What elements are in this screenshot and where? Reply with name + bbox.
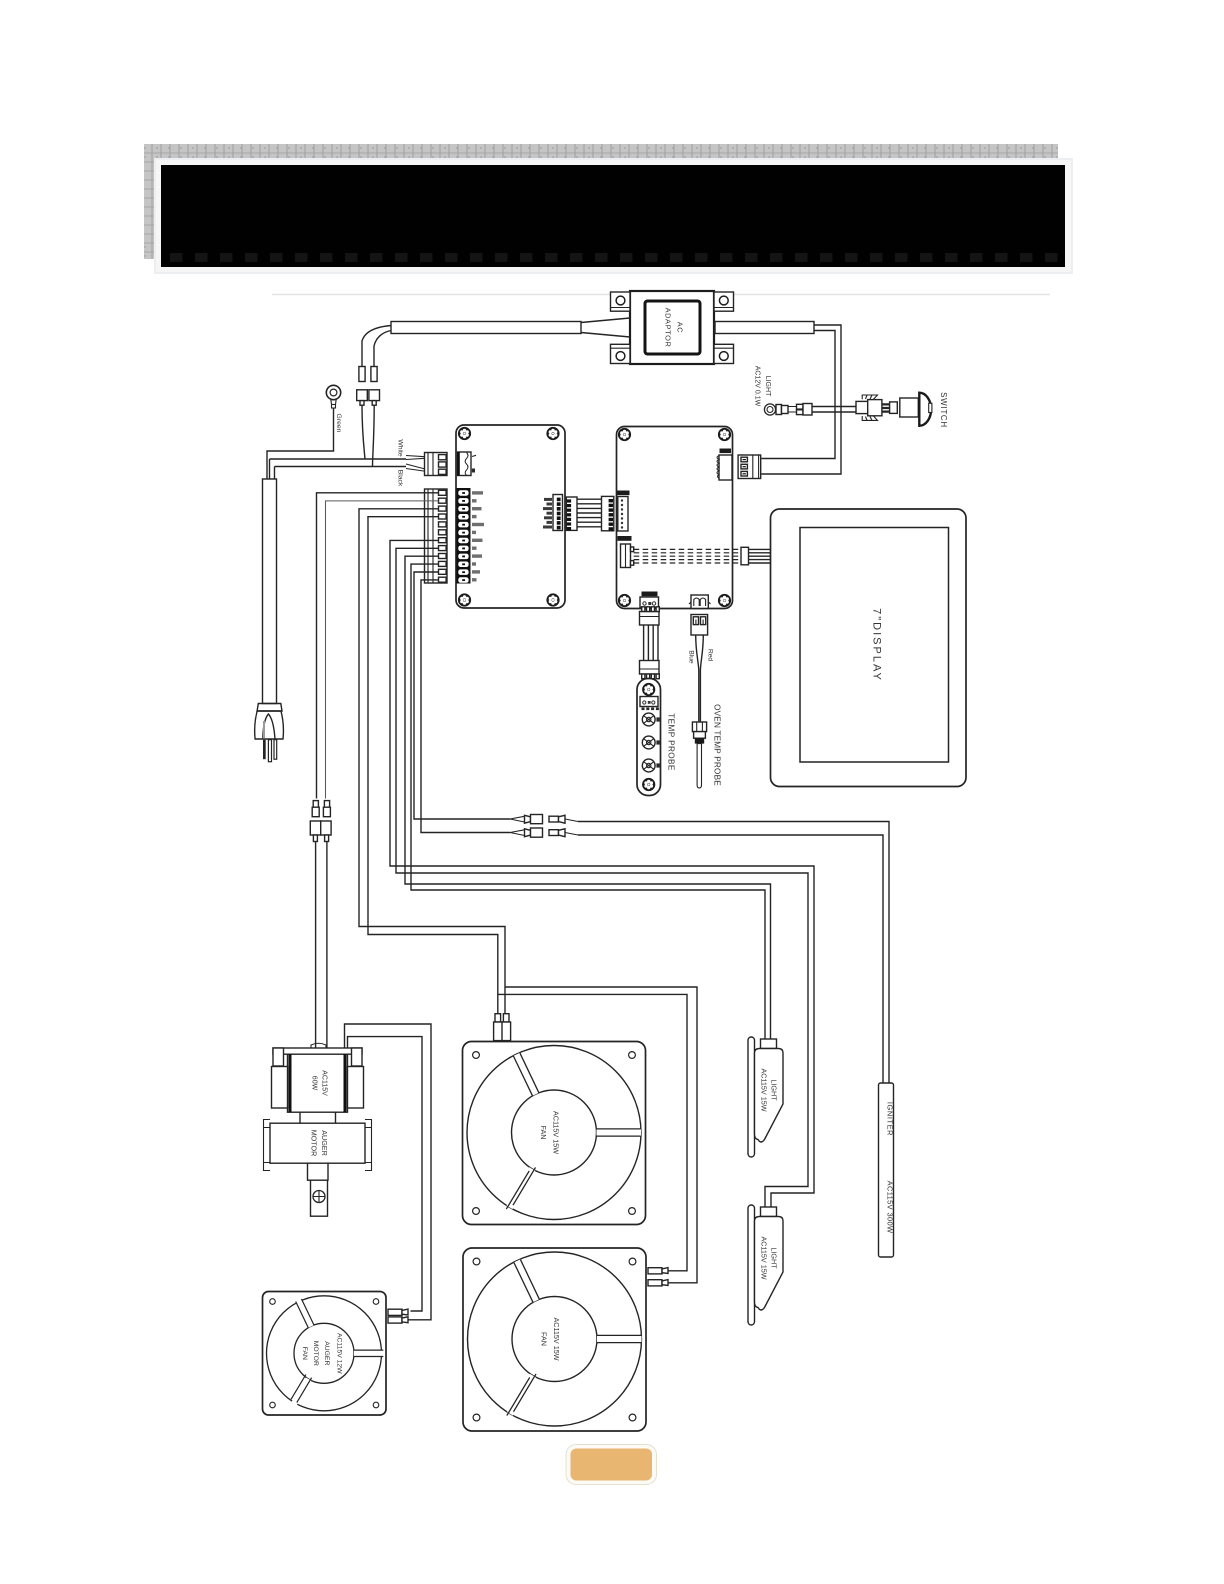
P-MOS comb connector upper — [640, 607, 660, 625]
wire: pin9 to light L1 — [405, 556, 771, 1039]
motor top cap — [311, 1043, 326, 1048]
cable sleeve right — [715, 322, 814, 334]
mating spade A — [357, 390, 368, 401]
7 inch display — [771, 509, 967, 787]
display cable connector — [741, 547, 749, 565]
auger fan F3 — [263, 1292, 387, 1416]
wire: oven probe leads — [696, 635, 699, 722]
auger fan spade row1 — [388, 1309, 408, 1315]
switch tab top — [862, 395, 877, 399]
shaft — [311, 1180, 328, 1216]
probe jack 3 — [642, 759, 655, 772]
AC adaptor body — [611, 291, 734, 364]
fan F1 — [463, 1042, 646, 1225]
power cord jacket — [263, 479, 277, 704]
svg-text:LIGHT: LIGHT — [764, 376, 771, 397]
banner black plate (redacted title) — [161, 165, 1065, 267]
wire: fan2 branch upper — [505, 987, 697, 1283]
wire: pin8 to light L2 — [396, 548, 808, 1207]
svg-text:Red: Red — [707, 649, 714, 661]
wire: light connector to switch — [812, 407, 856, 413]
page number button — [566, 1445, 657, 1485]
wire: pin1 to auger motor — [317, 493, 439, 799]
wire: fan2 branch lower — [498, 994, 687, 1270]
probe comb connector lower — [640, 661, 660, 679]
wire: spade row2 to igniter — [578, 835, 883, 1083]
svg-text:LIGHT: LIGHT — [770, 1247, 779, 1269]
auger motor inline spade A — [310, 801, 320, 1048]
screw board1 TL — [458, 427, 470, 439]
ribbon cable to display (dashed) — [634, 549, 741, 563]
screw board2 BL — [618, 594, 630, 606]
motor side bracket right — [348, 1067, 364, 1109]
wire: probe cable 4-core — [644, 625, 658, 661]
screw board2 TL — [618, 428, 630, 440]
svg-text:IGNITER: IGNITER — [886, 1102, 895, 1136]
wire: pin10 to light L1 — [411, 564, 765, 1039]
gearbox ear left — [264, 1120, 271, 1171]
auger fan blade slots — [294, 1300, 384, 1404]
label LCD — [720, 449, 732, 454]
svg-text:Green: Green — [335, 414, 342, 433]
spade terminal B (adaptor input) — [371, 367, 377, 382]
board2 display connector — [621, 544, 634, 568]
gearbox AUGER MOTOR — [270, 1123, 365, 1163]
switch tab bottom — [862, 416, 877, 420]
mating spade B — [369, 390, 380, 401]
inter-board ribbon left shell — [566, 497, 577, 530]
switch assembly — [856, 393, 932, 426]
wire: pin3 to fan1 — [359, 509, 505, 1014]
PCB board U2 (control board) — [617, 427, 733, 609]
PCB board U1 (power board) — [456, 425, 565, 608]
svg-text:AC115V 15W: AC115V 15W — [760, 1236, 769, 1279]
light L2 body — [755, 1217, 784, 1311]
screw board1 BL — [458, 594, 470, 606]
wire: pin11 to igniter spade — [414, 572, 510, 819]
svg-text:ADAPTOR: ADAPTOR — [664, 308, 673, 348]
wire ribbon between shells — [577, 499, 602, 527]
svg-text:SWITCH: SWITCH — [939, 392, 948, 428]
screw board2 TR — [718, 428, 730, 440]
wire: sleeve to spade drop B — [374, 331, 391, 367]
banner white frame — [155, 159, 1072, 273]
funnel into AC connector pin3 — [406, 464, 439, 472]
svg-text:LIGHT: LIGHT — [770, 1079, 779, 1101]
adaptor inner label frame — [645, 301, 700, 354]
wire: spade B to Black line — [373, 405, 375, 466]
svg-text:AC115V 12W: AC115V 12W — [336, 1333, 343, 1374]
auger fan spade row2 — [388, 1317, 408, 1323]
adaptor ear bottom-left — [611, 344, 631, 363]
funnel into AC connector pin1 — [406, 456, 439, 460]
screw board1 BR — [547, 594, 559, 606]
light L1 mounting bar — [748, 1037, 755, 1157]
svg-text:FAN: FAN — [539, 1126, 548, 1140]
svg-text:Black: Black — [397, 470, 404, 487]
fan1 blade slots — [510, 1054, 642, 1207]
screw board2 BR — [718, 594, 730, 606]
svg-text:7"DISPLAY: 7"DISPLAY — [871, 608, 883, 682]
auger motor inline spade B — [321, 801, 331, 1048]
svg-text:AC115V 300W: AC115V 300W — [886, 1181, 895, 1234]
board2 probe socket — [689, 595, 711, 608]
svg-text:MOTOR: MOTOR — [312, 1341, 319, 1366]
external 12-pin harness connector — [425, 489, 448, 583]
board2 motor connector — [618, 497, 628, 532]
probe jack 1 — [642, 713, 655, 726]
wire: adaptor output rail inner — [762, 331, 836, 459]
board2 P-MOS connector — [640, 597, 659, 608]
svg-text:AUGER: AUGER — [323, 1341, 330, 1365]
light L1 connector — [761, 1039, 777, 1049]
fan F2 — [463, 1248, 646, 1431]
screw probe bottom — [643, 778, 655, 790]
svg-text:AC115V 15W: AC115V 15W — [552, 1317, 561, 1360]
svg-text:AC115V 15W: AC115V 15W — [552, 1111, 561, 1154]
motor top flange — [273, 1048, 362, 1054]
svg-text:MOTOR: MOTOR — [310, 1130, 319, 1157]
wire: pin7 to light L2 — [390, 540, 814, 1207]
fan2 spade row2 — [648, 1280, 668, 1286]
svg-text:AC: AC — [676, 322, 685, 334]
shaft collar — [308, 1163, 329, 1180]
adaptor ear top-right — [714, 292, 734, 311]
external AC 3-pin connector — [425, 453, 448, 476]
svg-text:AC115V: AC115V — [321, 1070, 328, 1096]
light L2 connector — [761, 1207, 777, 1217]
svg-text:FAN: FAN — [301, 1347, 308, 1360]
wire: pin2 to auger motor (light) — [326, 501, 439, 799]
spade terminal A (adaptor input) — [359, 367, 365, 382]
faint rule under banner — [272, 294, 1050, 296]
LCD cable connector — [738, 455, 761, 479]
board1 pin name labels — [472, 491, 484, 581]
fan2 spade row1 — [648, 1268, 668, 1274]
wire: green ground — [267, 408, 334, 479]
auger motor M1 assembly — [264, 1043, 372, 1216]
screw probe top — [643, 683, 655, 695]
adaptor ear top-left — [611, 292, 631, 311]
oven probe fitting — [692, 722, 706, 788]
switch prongs — [882, 404, 890, 411]
svg-text:60W: 60W — [311, 1076, 318, 1091]
fan1 spade E — [502, 1014, 511, 1041]
label P-MOS — [642, 592, 658, 597]
wire: auger fan branch lower — [348, 1037, 423, 1311]
ring terminal Green — [326, 385, 340, 408]
indicator light AC12V — [754, 366, 789, 415]
wire: adaptor output rail outer — [762, 325, 842, 474]
label Motor — [617, 491, 630, 496]
wire: pin12 to igniter spade — [421, 580, 510, 833]
svg-text:FAN: FAN — [540, 1332, 549, 1346]
screw board1 TR — [547, 427, 559, 439]
board2 LCD connector — [717, 455, 732, 480]
svg-text:OVEN TEMP PROBE: OVEN TEMP PROBE — [713, 704, 722, 786]
fan1 rotor ring — [521, 1133, 641, 1220]
inter-board ribbon right shell — [602, 496, 614, 530]
temp probe jack board — [637, 679, 661, 796]
label P-Temp — [618, 536, 632, 541]
switch can — [900, 398, 919, 417]
light L1 body — [755, 1049, 784, 1143]
wire: White line — [270, 459, 407, 479]
gearbox ear right — [365, 1120, 372, 1171]
svg-text:AC115V 15W: AC115V 15W — [760, 1068, 769, 1111]
mains plug — [255, 704, 284, 762]
cable sleeve left — [391, 322, 581, 334]
motor side bracket left — [272, 1067, 288, 1109]
adaptor ear bottom-right — [714, 344, 734, 363]
svg-text:TEMP PROBE: TEMP PROBE — [667, 713, 676, 771]
header grid strip (scrapbook texture behind banner) — [144, 144, 1058, 259]
wire: adaptor left cord into sleeve — [581, 318, 630, 337]
board1 12-pin header column — [457, 488, 471, 584]
fan1 spade D — [494, 1014, 503, 1041]
igniter — [879, 1083, 894, 1257]
board1 inter-board header — [543, 495, 563, 531]
oven probe plug — [691, 615, 708, 636]
wire: spade A to White line — [362, 405, 365, 459]
wire: Black line — [275, 467, 407, 480]
switch bezel dome — [919, 393, 931, 426]
svg-text:AUGER: AUGER — [320, 1130, 329, 1156]
light L2 mounting bar — [748, 1205, 755, 1325]
wire: spade row1 to igniter — [578, 822, 889, 1084]
svg-text:White: White — [397, 439, 404, 457]
light connector pair — [797, 404, 804, 409]
fan2 blade slots — [510, 1261, 642, 1414]
svg-text:AC12V 0.1W: AC12V 0.1W — [754, 366, 761, 407]
svg-text:Blue: Blue — [688, 650, 695, 664]
motor body AC115V 60W — [288, 1054, 348, 1112]
board1 AC input terminal block — [458, 452, 477, 476]
probe board connector — [640, 697, 658, 707]
probe jack 2 — [642, 736, 655, 749]
wire: pin4 to fan1 — [368, 517, 498, 1014]
gear neck — [300, 1112, 336, 1123]
wire: light to connector — [788, 407, 797, 413]
igniter feed spade row1 — [510, 815, 578, 824]
wire: sleeve to spade drop A — [362, 326, 391, 367]
igniter feed spade row2 — [510, 828, 578, 837]
wire: auger fan branch upper — [345, 1024, 432, 1320]
